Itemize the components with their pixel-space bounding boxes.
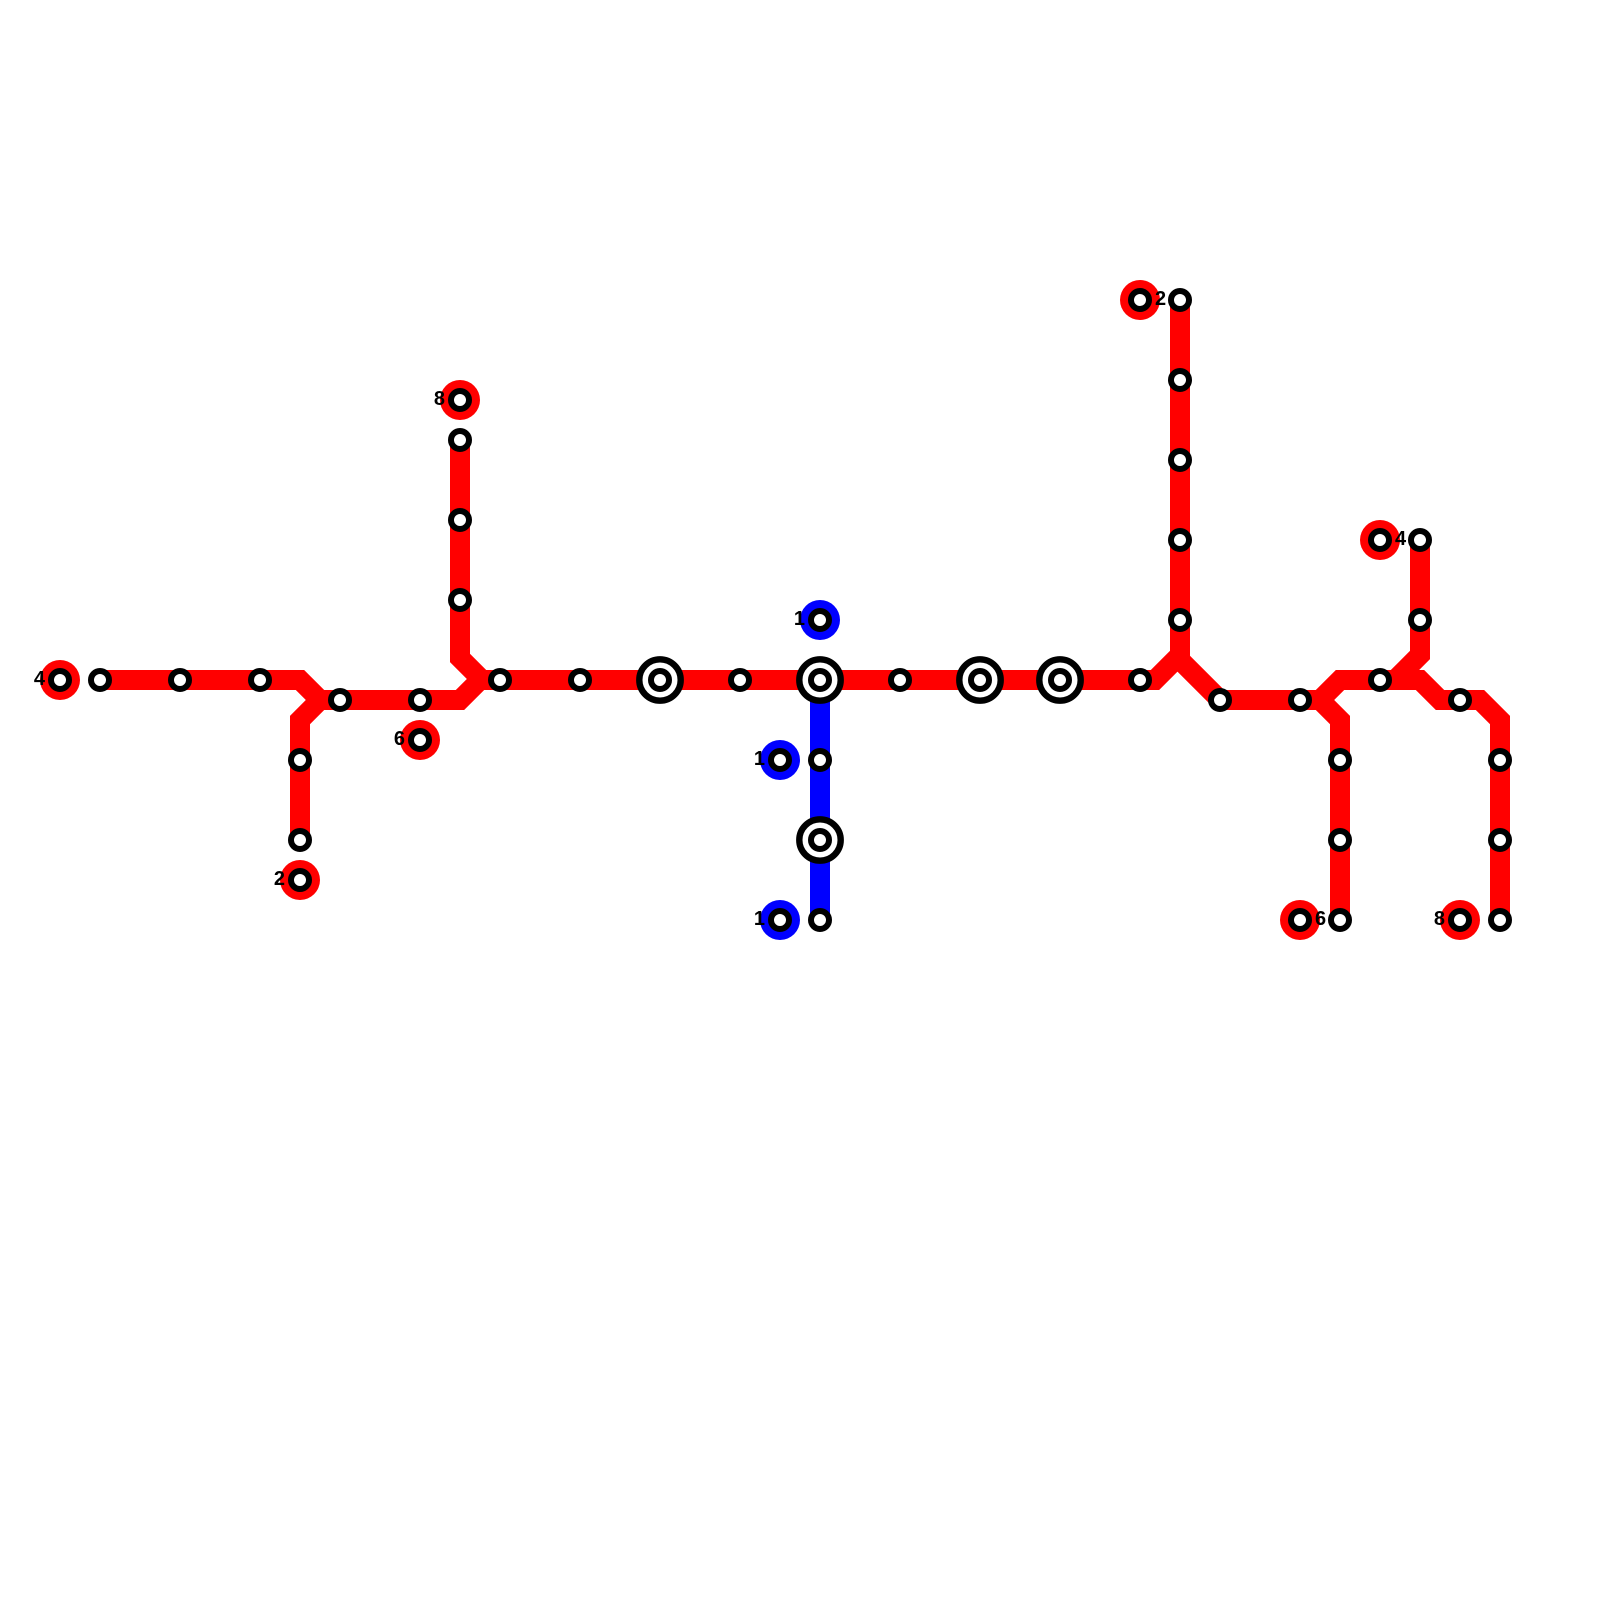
- svg-text:4: 4: [34, 668, 46, 690]
- svg-text:1: 1: [754, 748, 765, 770]
- svg-text:1: 1: [754, 908, 765, 930]
- svg-text:8: 8: [434, 388, 445, 410]
- svg-text:1: 1: [794, 608, 805, 630]
- svg-text:2: 2: [1155, 288, 1166, 310]
- svg-text:6: 6: [1315, 908, 1326, 930]
- svg-text:8: 8: [1434, 908, 1445, 930]
- svg-text:2: 2: [274, 868, 285, 890]
- svg-text:4: 4: [1395, 528, 1407, 550]
- svg-text:6: 6: [394, 728, 405, 750]
